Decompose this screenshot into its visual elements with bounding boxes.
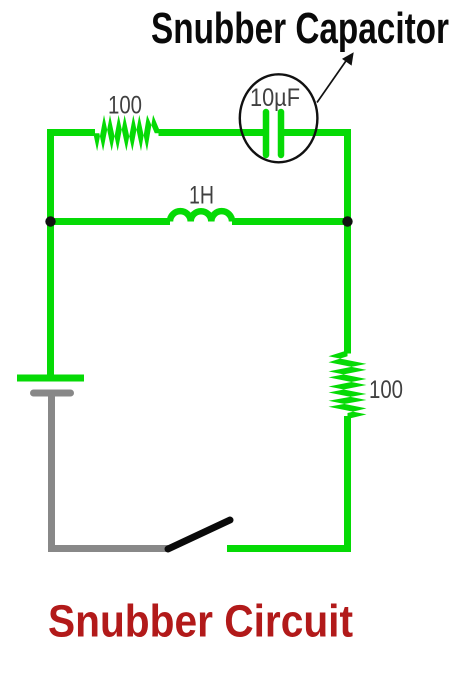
switch S1 (open, black lever): [168, 520, 230, 549]
svg-text:Snubber Capacitor: Snubber Capacitor: [151, 5, 449, 53]
node B (right junction dot): [342, 216, 352, 226]
gray wire battery to bottom-left corner: [52, 393, 169, 549]
highlight ellipse around capacitor: [240, 74, 318, 162]
arrow from title to capacitor: [317, 58, 348, 103]
capacitor C1 plates: [263, 112, 270, 155]
wire capacitor to top-right corner: [281, 133, 348, 354]
svg-text:100: 100: [369, 376, 403, 404]
resistor R1 100 (top, zigzag): [93, 115, 161, 151]
battery V1 negative plate (gray): [34, 390, 71, 397]
wire top-left segment: [51, 133, 96, 379]
svg-text:1H: 1H: [189, 182, 214, 210]
wire bottom-right (green): [227, 545, 351, 552]
wire resistor to capacitor: [159, 129, 267, 136]
svg-text:100: 100: [108, 92, 142, 120]
inductor L1 1H: [170, 211, 232, 221]
wire middle (inductor branch): [47, 218, 170, 225]
svg-text:10µF: 10µF: [250, 84, 300, 112]
wire resistor to bottom-right corner: [344, 416, 351, 552]
node A (left junction dot): [45, 216, 55, 226]
svg-text:Snubber Circuit: Snubber Circuit: [48, 596, 353, 647]
resistor R2 100 (right, vertical zigzag): [329, 350, 367, 419]
battery V1 positive plate (green): [17, 375, 84, 382]
